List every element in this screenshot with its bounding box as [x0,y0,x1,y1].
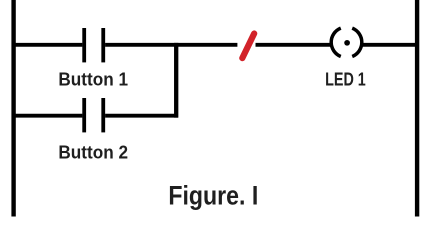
svg-text:Button 1: Button 1 [58,69,128,89]
svg-text:Button 2: Button 2 [58,142,128,162]
svg-text:Figure. I: Figure. I [168,181,258,211]
svg-text:LED 1: LED 1 [325,69,366,89]
